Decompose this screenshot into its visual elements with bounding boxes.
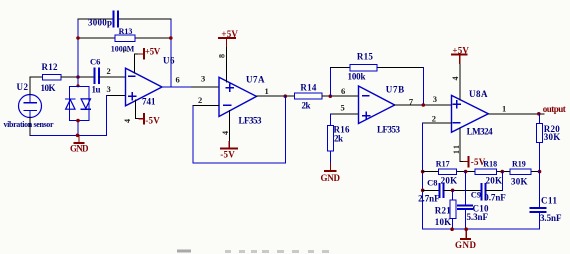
svg-text:20K: 20K xyxy=(486,176,503,186)
svg-text:2: 2 xyxy=(107,66,111,76)
svg-text:U8A: U8A xyxy=(469,89,488,99)
svg-text:3: 3 xyxy=(107,84,111,94)
capacitor C10 xyxy=(458,204,489,223)
bottom rail left section xyxy=(30,134,107,136)
node diode box bottom xyxy=(76,119,80,123)
wire U6 feedback left vertical xyxy=(77,19,79,77)
svg-text:C11: C11 xyxy=(541,196,558,206)
node rail / C10 branch xyxy=(464,170,468,174)
svg-text:+5V: +5V xyxy=(145,47,161,57)
diode D1 (cathode up) xyxy=(66,99,75,109)
svg-text:+5V: +5V xyxy=(221,29,238,39)
wire bottom rail right section xyxy=(423,228,540,230)
svg-text:C6: C6 xyxy=(90,57,100,67)
wire pin2 node vertical xyxy=(422,123,424,229)
node pin2 vertical / rail xyxy=(421,170,425,174)
wire U6 pin4 to -5V xyxy=(136,100,139,119)
svg-text:6: 6 xyxy=(341,86,345,96)
node R14/R15 junction xyxy=(329,94,333,98)
svg-text:3: 3 xyxy=(201,74,205,84)
svg-text:C9: C9 xyxy=(471,190,481,200)
ground GND left xyxy=(70,135,89,153)
svg-text:LM324: LM324 xyxy=(467,127,494,137)
wire U7B pin5 lead xyxy=(330,114,358,125)
wire U8A pin11 to -5V xyxy=(460,128,463,162)
resistor R12 xyxy=(41,62,61,93)
svg-text:3: 3 xyxy=(433,94,437,104)
capacitor 3000p xyxy=(88,12,118,28)
caption fragment bottom xyxy=(177,250,329,254)
wire C9 right to rail xyxy=(486,172,503,191)
wire C6 to U6 pin 2 xyxy=(99,76,126,78)
svg-text:C8: C8 xyxy=(427,178,437,188)
op-amp U6 xyxy=(126,56,176,107)
svg-text:7: 7 xyxy=(409,97,414,107)
power -5V at U6 xyxy=(139,114,160,126)
svg-text:4: 4 xyxy=(221,131,230,135)
svg-text:vibration sensor: vibration sensor xyxy=(4,120,54,129)
wire U8A pin2 lead xyxy=(423,122,452,124)
node output junction xyxy=(537,112,541,116)
svg-text:8: 8 xyxy=(218,54,227,58)
node rail / C9 branch xyxy=(501,170,505,174)
svg-text:R12: R12 xyxy=(42,62,59,72)
svg-text:2: 2 xyxy=(198,95,202,105)
op-amp U7B xyxy=(359,85,405,135)
wire U6 pin 3 to ground rail xyxy=(107,95,126,135)
svg-text:0.7nF: 0.7nF xyxy=(484,193,506,203)
wire U7A pin8 to +5V xyxy=(226,46,228,82)
svg-text:R15: R15 xyxy=(357,52,374,62)
svg-text:R19: R19 xyxy=(512,159,526,168)
svg-text:3.5nF: 3.5nF xyxy=(540,213,562,223)
svg-text:R14: R14 xyxy=(300,83,317,93)
node R21 top xyxy=(451,189,455,193)
wire top feedback rail xyxy=(78,18,171,20)
wire C8 to R21/C9 xyxy=(444,189,482,191)
node U7B output junction xyxy=(422,103,426,107)
wire U7B output to U8A pin3 xyxy=(395,104,452,106)
ground GND right xyxy=(455,229,477,250)
svg-text:R18: R18 xyxy=(483,159,497,168)
node U7A output feedback junction xyxy=(284,94,288,98)
wire R12 to C6 xyxy=(61,76,94,78)
op-amp U8A xyxy=(452,89,494,137)
node GND bottom junction xyxy=(464,227,468,231)
wire U6 pin7 to +5V xyxy=(135,54,139,73)
svg-text:2k: 2k xyxy=(334,134,343,144)
svg-text:U7A: U7A xyxy=(246,75,265,85)
svg-text:6: 6 xyxy=(176,75,180,85)
svg-text:LF353: LF353 xyxy=(239,116,263,126)
capacitor C11 xyxy=(530,196,562,224)
svg-text:2k: 2k xyxy=(302,101,311,111)
svg-text:U7B: U7B xyxy=(386,85,405,95)
ground GND middle xyxy=(321,163,341,183)
svg-text:GND: GND xyxy=(70,144,89,154)
svg-text:1: 1 xyxy=(502,104,506,114)
svg-text:100k: 100k xyxy=(348,72,366,82)
svg-text:30K: 30K xyxy=(544,132,561,142)
svg-text:4: 4 xyxy=(451,77,460,81)
svg-text:10K: 10K xyxy=(41,83,56,93)
node rail2 right xyxy=(169,36,173,40)
svg-text:1u: 1u xyxy=(92,85,101,95)
resistor R20 xyxy=(537,124,561,143)
svg-text:30K: 30K xyxy=(511,177,528,187)
svg-text:GND: GND xyxy=(455,240,477,250)
wire R16 bottom lead xyxy=(329,151,331,163)
resistor R21 xyxy=(435,190,456,229)
wire sensor top lead to R12 xyxy=(30,77,42,95)
svg-text:U2: U2 xyxy=(17,82,29,92)
diode clamp box wires xyxy=(70,86,90,135)
capacitor C6 xyxy=(90,57,101,95)
sensor U2 body xyxy=(19,95,42,118)
svg-text:GND: GND xyxy=(321,173,341,183)
sensor bottom lead xyxy=(29,117,31,135)
node pin2 vertical / C8 xyxy=(421,189,425,193)
wire R15 feedback loop xyxy=(330,68,423,105)
svg-text:-5V: -5V xyxy=(145,116,160,126)
svg-text:R13: R13 xyxy=(119,27,133,36)
svg-text:output: output xyxy=(543,104,566,114)
svg-text:2: 2 xyxy=(432,113,436,123)
node small mark diode box top xyxy=(76,84,79,87)
power +5V at U8A xyxy=(452,46,470,64)
wire U7A pin4 to -5V xyxy=(228,111,230,142)
node rail2 left xyxy=(76,36,80,40)
wire U6 feedback right vertical xyxy=(170,19,172,87)
wire U7A pin3 lead xyxy=(191,86,219,88)
wire filter rail segments xyxy=(423,171,540,173)
power +5V at U6 xyxy=(139,47,161,59)
node R21 bottom xyxy=(450,227,454,231)
svg-text:4: 4 xyxy=(123,119,132,123)
svg-text:2.7nF: 2.7nF xyxy=(418,194,440,204)
resistor R14 xyxy=(295,83,322,111)
diode D2 (cathode down) xyxy=(81,99,90,109)
capacitor C9 xyxy=(471,184,507,203)
wire second feedback rail xyxy=(78,37,171,39)
svg-text:5.3nF: 5.3nF xyxy=(467,212,489,222)
svg-text:U6: U6 xyxy=(163,56,175,66)
wire U7A feedback loop xyxy=(193,96,285,163)
wire U8A output xyxy=(488,113,544,115)
node bottom rail junction xyxy=(76,134,80,138)
wire U7A output xyxy=(257,95,295,97)
resistor R19 xyxy=(510,159,531,186)
power +5V at U7A xyxy=(219,29,238,47)
power -5V at U7A xyxy=(220,142,237,160)
svg-text:7: 7 xyxy=(122,49,131,53)
wire C8 left lead xyxy=(423,189,440,191)
node rail / R20 vertical xyxy=(538,170,542,174)
svg-text:741: 741 xyxy=(142,97,156,107)
svg-text:3000p: 3000p xyxy=(88,18,112,28)
resistor R15 xyxy=(348,52,378,82)
node junction at R12/C6/diodes xyxy=(76,75,80,79)
power -5V at U8A xyxy=(464,157,486,167)
svg-text:11: 11 xyxy=(452,145,461,154)
wire R20 / C11 vertical xyxy=(539,114,541,229)
svg-text:R17: R17 xyxy=(436,159,450,168)
svg-text:R21: R21 xyxy=(435,206,452,216)
resistor R17 xyxy=(436,159,457,185)
svg-text:5: 5 xyxy=(341,103,345,113)
svg-text:LF353: LF353 xyxy=(377,125,401,135)
capacitor C8 xyxy=(418,178,444,204)
svg-text:+5V: +5V xyxy=(452,46,469,56)
wire U6 output xyxy=(162,86,191,88)
wire R14 to U7B pin6 xyxy=(322,95,359,97)
svg-text:-5V: -5V xyxy=(220,150,235,160)
wire diode branch stub xyxy=(77,77,79,86)
op-amp U7A xyxy=(219,75,265,126)
svg-text:1: 1 xyxy=(265,86,269,96)
resistor R16 xyxy=(327,125,350,152)
wire U8A pin4 to +5V xyxy=(459,63,461,100)
wire C10 vertical xyxy=(465,172,467,230)
resistor R13 xyxy=(111,27,135,54)
resistor R18 xyxy=(475,159,502,185)
wire U7A pin2 lead xyxy=(193,105,219,107)
svg-text:10K: 10K xyxy=(435,217,452,227)
